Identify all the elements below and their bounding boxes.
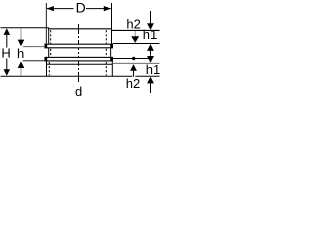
dimension h2 bottom arrow up (below base line at right)	[147, 77, 154, 93]
svg-text:h2: h2	[126, 16, 140, 31]
rib 2 (lower flange band)	[45, 57, 113, 61]
neck left edge between ribs	[48, 48, 50, 57]
neck right edge between ribs	[110, 48, 112, 57]
lower body right edge	[111, 61, 113, 76]
dimension h arrow down (to rib1 bottom line)	[18, 28, 25, 46]
dimension h1 top arrow down (hangs from L1R to L2R)	[131, 31, 139, 43]
dimension D line right segment	[86, 8, 111, 10]
dimension h2 bottom arrow up (to line B, stem through base line)	[130, 64, 137, 77]
dot terminator on line A	[132, 57, 135, 60]
dimension arrows between L2R and B (up+down pair at right)	[147, 44, 154, 63]
internal shoulder line across lower body	[47, 63, 112, 65]
dimension h arrow up (to rib2 bottom line)	[18, 61, 25, 76]
hidden inner wall right (dashed)	[105, 30, 107, 76]
svg-text:h: h	[17, 46, 24, 61]
dimension D arrow left	[47, 6, 54, 11]
dimension H arrow down (at base line)	[4, 59, 11, 76]
lower body left edge	[46, 61, 48, 76]
reference line A: rib2 bottom extended right	[112, 58, 148, 60]
D extension line right / part upper right edge	[111, 3, 113, 44]
dimension D arrow right	[104, 6, 111, 11]
dimension h2 top arrow down (to L1R)	[147, 11, 154, 30]
reference line rib1 bottom extended left	[23, 46, 45, 48]
base line (part bottom + extensions both sides, gap at h2 stem)	[1, 75, 133, 77]
centerline (vertical dash-dot axis)	[78, 24, 80, 84]
top surface extension line to the left	[1, 27, 49, 29]
reference line L1R: top surface extended right (1px lower step)	[112, 29, 160, 31]
D extension line left	[45, 3, 47, 44]
svg-text:h2: h2	[126, 76, 140, 91]
svg-text:h1: h1	[146, 62, 160, 77]
reference line B: lower step extended right	[113, 62, 160, 64]
part top surface	[48, 28, 111, 30]
svg-text:H: H	[1, 46, 10, 61]
svg-text:h1: h1	[143, 27, 157, 42]
reference line L2R: rib1 top extended right	[113, 43, 160, 45]
svg-text:d: d	[75, 84, 82, 98]
part upper body left edge	[48, 28, 50, 45]
reference line rib2 bottom extended left	[23, 60, 45, 62]
rib 1 (upper flange band)	[45, 44, 113, 48]
hidden inner wall left (dashed)	[49, 30, 50, 76]
svg-text:D: D	[76, 0, 86, 16]
dimension H arrow up (at top line)	[4, 28, 11, 47]
dimension D line left segment	[47, 8, 74, 10]
